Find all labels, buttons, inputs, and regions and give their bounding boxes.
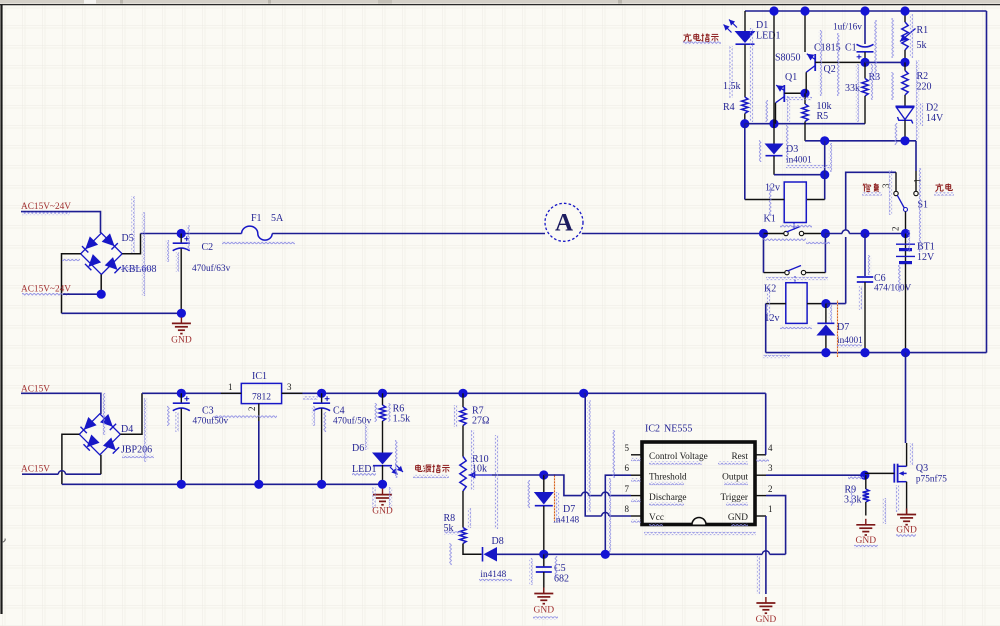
resistor R4 1.5k: [742, 97, 748, 114]
svg-text:C1815: C1815: [814, 43, 841, 54]
relay contact rail: [759, 229, 768, 238]
wire R5 bottom row y=140.8: [805, 140, 916, 142]
node threshold bottom: [601, 550, 610, 559]
hop gnd wire over trigger net: [762, 551, 769, 555]
wire bridge D4 + output riser: [120, 393, 142, 434]
resistor R9 3.3k: [865, 475, 867, 489]
fuse F1: [242, 226, 273, 240]
right border wire: [986, 11, 988, 353]
svg-text:2: 2: [768, 484, 773, 494]
wire rail to Vcc (x=585): [579, 389, 588, 398]
IC2 pin5: [631, 454, 642, 456]
main wire y=233 from bridge to fuse: [141, 233, 242, 235]
svg-text:Trigger: Trigger: [720, 493, 748, 503]
wire D6 to gnd rail: [382, 465, 384, 484]
node R6 top: [378, 389, 387, 398]
svg-text:D6: D6: [352, 443, 364, 454]
IC2 pin1: [755, 515, 766, 517]
node BT1 bottom: [901, 348, 910, 357]
hatch marks: [142, 212, 145, 296]
wire R10 to R8: [462, 491, 464, 528]
ground IC2: [765, 597, 767, 603]
svg-text:7: 7: [625, 484, 630, 494]
wire R7 to R10: [462, 426, 464, 457]
regulator IC1 7812: [241, 383, 281, 403]
ground R9: [865, 519, 867, 525]
bottom rail right block: [766, 352, 987, 354]
svg-text:R4: R4: [723, 102, 735, 113]
svg-text:1.5k: 1.5k: [393, 414, 411, 425]
window strip: [0, 0, 1000, 4]
IC2 pin2: [755, 495, 766, 497]
wire AC15V lower with hop: [22, 473, 58, 475]
wire K2 coil left: [766, 303, 786, 305]
svg-text:Control Voltage: Control Voltage: [649, 452, 708, 462]
capacitor C2: [180, 234, 182, 244]
label chongdian: [938, 184, 940, 186]
wire AC15V to bridge D4: [21, 393, 101, 414]
node y141 b: [900, 136, 909, 145]
svg-text:K2: K2: [764, 284, 776, 295]
wire AC15V~24V lower: [63, 293, 101, 295]
transistor Q1 S8050: [783, 85, 785, 102]
top rail: [745, 10, 987, 12]
wire bridge D5 bottom: [100, 275, 102, 295]
svg-text:1: 1: [768, 504, 773, 514]
sheet top border: [0, 4, 1000, 6]
node C4 bottom: [317, 480, 326, 489]
sheet left border: [0, 5, 2, 614]
relay K1 coil: [784, 182, 806, 223]
potentiometer R1 5k: [904, 11, 906, 22]
svg-text:Q1: Q1: [785, 72, 797, 83]
svg-text:Discharge: Discharge: [649, 493, 687, 503]
ammeter A: [545, 203, 583, 241]
wire R4 node to K1: [744, 124, 746, 200]
battery BT1 12V: [905, 234, 907, 264]
svg-text:NE555: NE555: [664, 424, 692, 435]
svg-text:C2: C2: [202, 242, 214, 253]
IC2 NE555 box: [642, 442, 755, 525]
wire S1 vertical to K2 node: [826, 303, 846, 305]
svg-text:470uf/63v: 470uf/63v: [192, 263, 231, 274]
svg-text:C4: C4: [333, 406, 345, 417]
capacitor C5 682: [543, 554, 545, 567]
node D3 top: [769, 119, 778, 128]
bottom rail (lower section gnd): [62, 483, 383, 485]
svg-text:D1: D1: [756, 20, 768, 31]
ground below C5: [543, 588, 545, 594]
svg-text:6: 6: [625, 463, 630, 473]
svg-text:12v: 12v: [765, 183, 780, 194]
resistor R7 27ohm: [462, 393, 464, 407]
wire K1 coil right pin: [806, 199, 824, 201]
wire k1 node vertical: [824, 141, 826, 200]
diode D7 in4148: [543, 475, 545, 492]
switch S1 arm: [904, 208, 908, 212]
node K1 contact right: [821, 229, 830, 238]
bridge rectifier D4 JBP206: [79, 414, 120, 455]
wire to S1 pin1: [915, 141, 917, 171]
K2 contact ladder verticals: [763, 234, 765, 273]
marker orange D7b: [837, 300, 839, 357]
wire D5 minus rail to GND node: [62, 312, 182, 314]
node R1/R2: [900, 58, 909, 67]
transistor Q2 C1815: [804, 11, 806, 52]
node D6 bottom: [378, 480, 387, 489]
resistor R6 1.5k: [382, 393, 384, 405]
wire Q1 base: [784, 92, 805, 94]
svg-text:LED1: LED1: [756, 31, 780, 42]
switch S1 pin1: [915, 171, 917, 191]
ground below C2: [180, 317, 182, 323]
IC1 pin 3: [282, 392, 303, 394]
svg-text:1: 1: [228, 382, 233, 392]
svg-text:5k: 5k: [917, 40, 927, 51]
svg-text:GND: GND: [728, 513, 748, 523]
LED D1: [744, 11, 746, 31]
IC2 pin6: [631, 474, 642, 476]
ground Q3 source: [906, 509, 908, 515]
wire K1 coil left pin: [745, 199, 784, 201]
svg-text:C6: C6: [874, 273, 886, 284]
wire bottom trigger net: [544, 553, 763, 555]
node R7 top: [458, 389, 467, 398]
resistor R5 10k: [804, 93, 806, 104]
wire R8 to D8: [463, 544, 482, 555]
node C2 top: [177, 229, 186, 238]
wire fuse to ammeter: [272, 233, 545, 235]
switch S1 pole: [905, 212, 907, 234]
wire bridge D5 left to lower AC: [62, 254, 81, 313]
IC2 pin4: [755, 454, 766, 456]
resistor R2 220: [904, 62, 906, 70]
node K1 right: [820, 170, 829, 179]
svg-text:Q3: Q3: [916, 463, 928, 474]
svg-text:JBP206: JBP206: [121, 445, 152, 456]
svg-text:D4: D4: [121, 424, 133, 435]
node C1/R3: [860, 58, 869, 67]
wire R10 wiper to D7 node: [492, 474, 544, 476]
svg-text:GND: GND: [534, 606, 555, 616]
capacitor C3: [180, 393, 182, 403]
bridge rectifier D5 KBL608: [81, 233, 122, 274]
ground below D6: [382, 489, 384, 495]
resistor R3 33k: [864, 62, 866, 78]
node Q1 base / R5: [800, 89, 809, 98]
LED D6: [372, 453, 393, 465]
wire pin1 to ground: [765, 516, 767, 594]
svg-text:C3: C3: [202, 406, 214, 417]
wire bridge D5 + output riser: [122, 234, 140, 254]
svg-text:in4001: in4001: [786, 156, 812, 166]
svg-text:Rest: Rest: [731, 452, 748, 462]
svg-text:D7: D7: [837, 322, 849, 333]
svg-text:A: A: [555, 210, 573, 237]
svg-text:Q2: Q2: [824, 64, 836, 75]
wire discharge from D7 node: [544, 475, 582, 496]
svg-text:R1: R1: [917, 25, 929, 36]
svg-text:D7: D7: [563, 504, 575, 515]
wire pin4 to rail: [765, 393, 767, 455]
node Q3 gate / R9: [860, 471, 869, 480]
rail A y=123.7: [745, 123, 865, 125]
svg-text:D2: D2: [926, 103, 938, 114]
node C6 top: [860, 229, 869, 238]
wire K2 coil right: [807, 303, 826, 305]
wire D3 bottom to K1 node: [774, 174, 825, 176]
svg-text:IC1: IC1: [252, 371, 267, 382]
node y141 a: [820, 136, 829, 145]
capacitor C6 474/100V: [864, 234, 866, 277]
node R10/D7: [539, 470, 548, 479]
wire contact rail to C6/BT1 with hop: [825, 233, 842, 235]
IC2 pin3: [755, 474, 766, 476]
wire threshold loop vertical: [605, 475, 631, 554]
diode D3 in4001: [773, 124, 775, 144]
label dianyuan zhishi: [415, 466, 417, 470]
wire ammeter to relay contacts: [582, 233, 764, 235]
resistor R8 5k: [460, 528, 466, 544]
IC1 pin 1: [221, 392, 242, 394]
wire Q1 column: [773, 11, 775, 124]
svg-text:8: 8: [625, 504, 630, 514]
svg-text:Threshold: Threshold: [649, 472, 687, 482]
node C4 top: [317, 389, 326, 398]
svg-text:D8: D8: [492, 536, 504, 547]
node C3 top: [177, 389, 186, 398]
svg-text:2: 2: [891, 227, 901, 232]
potentiometer R10 10k: [460, 457, 466, 492]
wire bridge D4 left arm: [62, 434, 79, 484]
node C5 top / D7 bottom: [539, 550, 548, 559]
svg-text:10k: 10k: [472, 464, 487, 475]
wire AC15V~24V top to bridge: [21, 212, 101, 233]
node GND top-left: [177, 309, 186, 318]
svg-text:5: 5: [625, 443, 630, 453]
svg-text:AC15V: AC15V: [21, 465, 50, 475]
wire AC to bridge D4 bottom: [100, 455, 102, 474]
svg-text:R5: R5: [817, 111, 829, 122]
svg-text:GND: GND: [856, 536, 877, 546]
switch S1 pin3: [895, 172, 897, 191]
svg-text:C1: C1: [845, 43, 857, 54]
wire pin3 output to Q3 gate: [766, 474, 865, 476]
capacitor C1 1uf/16v: [864, 11, 866, 44]
svg-text:12V: 12V: [917, 252, 935, 263]
svg-text:F1: F1: [251, 213, 262, 224]
svg-text:1uf/16v: 1uf/16v: [833, 22, 862, 33]
K1 contact: [764, 233, 784, 235]
svg-text:GND: GND: [372, 507, 393, 517]
svg-text:p75nf75: p75nf75: [916, 474, 947, 485]
svg-text:4: 4: [768, 443, 773, 453]
svg-text:Vcc: Vcc: [649, 513, 664, 523]
zener D2 14V: [896, 105, 915, 107]
IC2 pin7: [631, 495, 642, 497]
svg-text:3: 3: [287, 382, 292, 392]
label xiufu: [863, 184, 864, 186]
svg-text:Output: Output: [722, 472, 748, 482]
wire BT1 rail to Q3 drain: [905, 353, 907, 443]
mosfet Q3 p75nf75: [906, 443, 908, 466]
node R4 bottom: [740, 119, 749, 128]
svg-text:27Ω: 27Ω: [472, 416, 489, 427]
wire gate stub: [865, 472, 895, 474]
svg-text:7812: 7812: [252, 393, 271, 403]
node top rail / Q1: [769, 6, 778, 15]
wire S1 pin3 feed: [846, 172, 896, 230]
svg-text:3: 3: [768, 463, 773, 473]
node bridge D5 / AC port: [97, 290, 106, 299]
node C3 bottom: [177, 480, 186, 489]
wire R3-R1 node row: [865, 61, 905, 63]
svg-text:GND: GND: [756, 615, 777, 625]
wire pin2 trigger loop: [766, 496, 786, 555]
svg-text:S8050: S8050: [775, 53, 801, 64]
node K2/D7: [821, 299, 830, 308]
IC1 pin 2: [258, 404, 260, 421]
wire Q2 base: [815, 61, 865, 63]
diode D7 in4001 (flyback): [825, 304, 827, 323]
svg-text:5A: 5A: [271, 213, 284, 224]
svg-text:in4148: in4148: [480, 570, 506, 580]
wire D8 to C5 node: [497, 553, 544, 555]
node D7 bottom: [821, 348, 830, 357]
svg-text:2: 2: [247, 407, 257, 412]
marker orange D7: [554, 474, 556, 521]
capacitor C4: [321, 393, 323, 403]
svg-text:GND: GND: [171, 335, 192, 345]
svg-text:AC15V~24V: AC15V~24V: [21, 202, 71, 212]
svg-text:12v: 12v: [765, 313, 780, 324]
label chongdian zhishi: [686, 34, 688, 36]
node IC1 pin2 bottom: [254, 480, 263, 489]
IC2 pin8: [631, 515, 642, 517]
relay K2 coil: [786, 283, 807, 324]
svg-text:14V: 14V: [926, 113, 944, 124]
diode D8 in4148: [482, 547, 484, 562]
svg-text:IC2: IC2: [645, 424, 660, 435]
node C6 bottom: [860, 348, 869, 357]
K2 contact: [764, 272, 785, 274]
node BT1 top: [901, 229, 910, 238]
+12 rail (lower section): [142, 392, 241, 394]
